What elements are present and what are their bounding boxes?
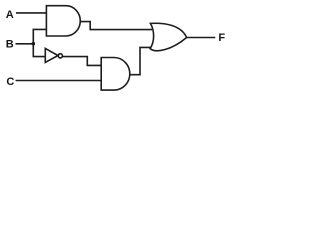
wire G1 output to OR gate G4 top input bbox=[80, 22, 152, 30]
svg-text:B: B bbox=[6, 39, 14, 51]
wire G2 output to AND gate G3 upper input bbox=[63, 57, 102, 66]
svg-text:F: F bbox=[218, 32, 225, 44]
inverter G2 bubble bbox=[58, 54, 62, 58]
inverter G2 bbox=[45, 48, 58, 62]
wire B down to inverter G2 input bbox=[33, 44, 45, 57]
junction dot on B bbox=[32, 42, 36, 46]
svg-text:C: C bbox=[6, 76, 14, 88]
wire G3 output to OR gate G4 bottom input bbox=[129, 47, 151, 74]
wire A to AND gate G1 bbox=[16, 12, 46, 14]
wire G4 output to F bbox=[186, 37, 215, 39]
wire C to AND gate G3 lower input bbox=[16, 80, 102, 82]
wire B to junction bbox=[16, 43, 34, 45]
and-gate G3 bbox=[101, 58, 130, 91]
and-gate G1 bbox=[46, 6, 80, 36]
wire B up to AND gate G1 lower input bbox=[33, 29, 46, 43]
svg-text:A: A bbox=[6, 9, 14, 21]
or-gate G4 bbox=[150, 23, 187, 50]
